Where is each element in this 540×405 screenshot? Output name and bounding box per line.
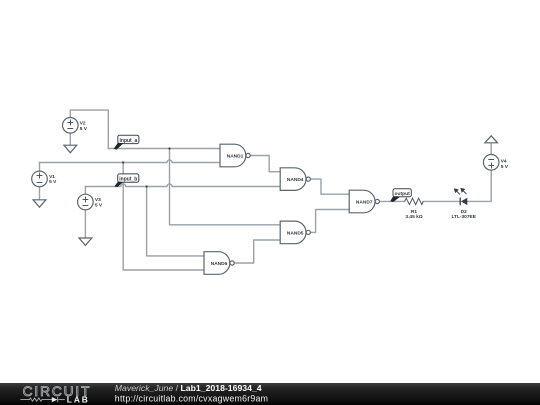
wire NAND7 out to R1 [379,200,404,202]
svg-text:NAND5: NAND5 [287,230,304,236]
wire V1 to NAND1 B with hop over x=169.5 [40,160,221,163]
svg-text:V2: V2 [80,121,86,127]
svg-text:NAND4: NAND4 [287,177,304,183]
wire input_a horizontal to NAND1 A [108,148,220,150]
wire V4 top stub [490,143,492,155]
wire NAND5 out to NAND7 B [310,210,349,233]
svg-text:5 V: 5 V [95,203,103,209]
wire D2 to V4 [467,170,491,202]
ground under V1 [33,200,46,207]
svg-text:V4: V4 [501,159,507,165]
svg-text:R1: R1 [411,209,417,215]
wire NAND1 out to NAND4 A [250,156,280,172]
svg-text:NAND7: NAND7 [356,200,373,206]
svg-text:D2: D2 [461,209,467,215]
svg-text:input_b: input_b [119,177,137,183]
svg-text:3.45 kΩ: 3.45 kΩ [405,214,422,220]
logo wire resistor diode glyph [20,397,65,402]
NAND4 bubble [306,177,310,181]
NAND7 bubble [375,199,379,203]
svg-text:NAND1: NAND1 [227,154,244,160]
LED D2 triangle [461,198,467,205]
svg-text:output: output [394,191,410,197]
logo diode triangle [52,397,58,402]
voltage source V3 circle [78,194,94,210]
NAND4 gate body [280,168,306,191]
wire NAND4 out to NAND7 A [310,179,349,194]
svg-text:V1: V1 [49,174,55,180]
wire R1 to D2 [423,200,460,202]
V4 plus sign (bottom) [489,165,494,167]
NAND7 gate body [349,190,375,213]
NAND6 bubble [230,261,234,265]
NAND5 gate body [280,221,306,244]
V1 minus sign [37,182,42,184]
voltage source V4 circle [483,155,499,171]
V2 plus sign [68,122,73,124]
wire V3 ground stub [84,210,86,238]
svg-text:NAND6: NAND6 [211,261,228,267]
svg-text:5 V: 5 V [49,179,57,185]
flag output pointer [390,197,400,202]
svg-text:Maverick_June / Lab1_2018-1693: Maverick_June / Lab1_2018-16934_4 [115,383,262,393]
flag output box [393,189,411,197]
wire input_a vertical drop to NAND5 A [170,149,281,225]
wire input_b to NAND4 B with hops at x=123.2 and x=169.5 [85,184,280,187]
ground above V4 (flipped) [485,136,498,143]
LED D2 cathode bar [459,198,461,206]
V3 minus sign [83,205,88,207]
svg-text:LTL-307EE: LTL-307EE [451,214,476,220]
V1 plus sign [37,175,42,177]
wire NAND6 out to NAND5 B [234,240,280,263]
flag input_b pointer [114,182,123,188]
V4 minus sign (top) [489,159,494,161]
NAND6 gate body [204,252,230,275]
junction at V1 / NAND6 branch [122,161,124,163]
V3 plus sign [83,199,88,201]
LED D2 emission arrows [455,189,467,195]
svg-text:5 V: 5 V [80,126,88,132]
wire V1 ground stub [39,187,41,200]
junction at input_b / NAND6 branch [146,185,148,187]
svg-text:input_a: input_a [120,138,138,144]
flag input_b box [118,174,139,182]
svg-text:5 V: 5 V [501,164,509,170]
voltage source V1 circle [32,171,48,187]
voltage source V2 circle [63,118,79,134]
wire V1 net vertical to NAND6 B [123,163,204,271]
ground under V2 [64,145,77,153]
footer bar [0,383,540,405]
NAND1 bubble [246,153,250,157]
wire V2 ground stub [69,133,71,145]
wire V1 stub [39,163,41,172]
V2 minus sign [68,128,73,130]
NAND5 bubble [306,230,310,234]
svg-text:LAB: LAB [67,395,90,405]
NAND1 gate body [220,144,246,167]
wire input_b vertical to NAND6 A [147,187,204,256]
flag input_a pointer [114,143,124,150]
ground under V3 [79,238,92,245]
resistor R1 zigzag [405,198,424,204]
flag input_a box [118,135,139,143]
junction at input_a / NAND5 branch [168,147,170,149]
svg-text:http://circuitlab.com/cvxagwem: http://circuitlab.com/cvxagwem6r9am [115,394,268,404]
wire V2 top to input_a corner [70,110,108,148]
wire V3 stub [84,187,86,195]
svg-text:V3: V3 [95,197,101,203]
